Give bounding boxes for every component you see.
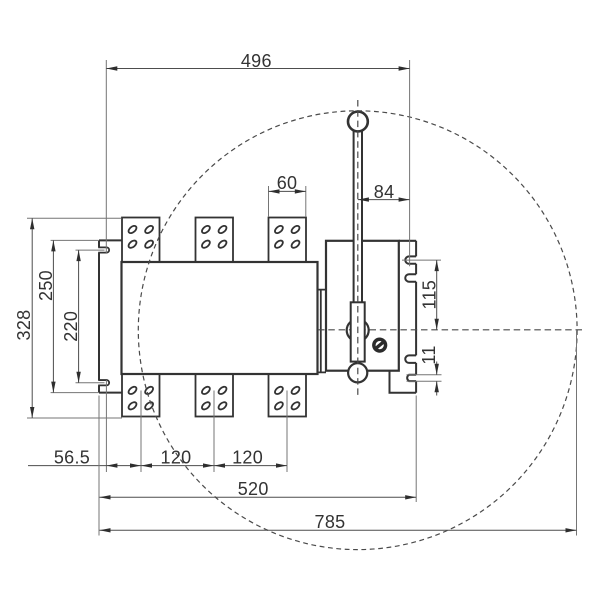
right plate notch 2 [405, 274, 416, 282]
dimension arrows at 214 [203, 463, 214, 467]
svg-text:250: 250 [36, 270, 56, 301]
right mounting plate right edge [415, 241, 417, 393]
right plate notch 1 [405, 256, 416, 263]
dimension 496 extension lines [105, 60, 107, 253]
bottom terminal 3 holes [274, 385, 301, 411]
bottom terminal 1 holes [127, 385, 154, 411]
dimension 56.5/120/120 line [28, 465, 287, 467]
dimension 220 extension lines [76, 249, 105, 251]
right plate lower extension [390, 371, 417, 393]
dimension 328 line [31, 218, 33, 418]
svg-text:60: 60 [277, 173, 298, 193]
right mounting plate top edge [399, 240, 416, 242]
left mounting bracket left edge [98, 240, 100, 392]
dimension 250 arrows [51, 240, 55, 251]
bottom terminal 3 [269, 374, 307, 417]
dimension 785 arrows [100, 528, 111, 532]
dimension arrows at 141 [130, 463, 141, 467]
top terminal 3 [269, 218, 307, 263]
left mounting bracket top edge [99, 239, 122, 241]
dimension 520 arrows [100, 495, 111, 499]
dimension 84 arrows [358, 197, 369, 201]
svg-text:328: 328 [14, 310, 34, 341]
bottom terminal 2 [196, 374, 234, 417]
svg-text:785: 785 [315, 512, 346, 532]
svg-text:220: 220 [61, 311, 81, 342]
dimension 250 extension lines [51, 239, 99, 241]
dimension 11 extension lines [407, 374, 442, 376]
dimension 115 arrows [435, 260, 439, 271]
dimension 520 line [100, 496, 417, 498]
svg-text:84: 84 [374, 182, 395, 202]
dimension 115 line [436, 260, 438, 330]
dimension 496 line [106, 68, 409, 70]
top terminal 2 holes [201, 224, 228, 249]
dimension 60 extension lines [268, 186, 270, 217]
svg-text:520: 520 [238, 479, 269, 499]
bottom terminal 2 holes [201, 385, 228, 411]
dimension 220 arrows [76, 250, 80, 261]
dimension 220 line [78, 250, 80, 383]
dimension 250 line [52, 240, 54, 392]
right plate notch 4 [407, 375, 416, 381]
dimension 520 extension lines [98, 396, 100, 536]
handle shaft [354, 130, 362, 303]
dimension 11 arrows [435, 364, 439, 375]
top terminal 1 holes [127, 224, 154, 249]
dimension 60 line [269, 190, 306, 192]
handle sleeve [351, 302, 365, 361]
handle top ball [348, 112, 368, 132]
top terminal 2 [196, 218, 234, 263]
left mounting bracket bottom edge [99, 392, 122, 394]
main body [122, 262, 318, 374]
dimension 56.5 arrow [106, 463, 117, 467]
svg-text:56.5: 56.5 [54, 447, 90, 467]
svg-text:120: 120 [161, 447, 192, 467]
dimension 11 lines [436, 362, 438, 375]
svg-text:120: 120 [232, 447, 263, 467]
pivot circle [347, 319, 369, 341]
dimension 328 arrows [30, 218, 34, 229]
screw head [372, 338, 387, 353]
top terminal 1 [122, 218, 160, 263]
top terminal 3 holes [274, 224, 301, 249]
bottom terminal 1 [122, 374, 160, 417]
dimension 328 extension lines [27, 217, 122, 219]
dimension 60 arrows [269, 189, 280, 193]
dimension 496 arrows [106, 66, 117, 70]
left bracket bottom keyhole slot [98, 380, 109, 385]
svg-text:496: 496 [241, 51, 272, 71]
junction piece between body and mechanism [318, 290, 327, 373]
dimension 115 extension line [402, 259, 441, 261]
handle swing dashed circle [138, 111, 577, 550]
dimension 785 extension line [576, 330, 578, 536]
dimension arrow at 287 [276, 463, 287, 467]
left bracket top keyhole slot [98, 247, 109, 252]
horizontal centerline [318, 329, 583, 331]
dimension 785 line [100, 529, 577, 531]
dimension 84 line [358, 199, 410, 201]
right plate notch 3 [405, 355, 416, 363]
vertical centerline of handle [357, 100, 359, 396]
svg-text:115: 115 [419, 280, 439, 310]
mechanism box [326, 241, 399, 371]
bottom extension lines [105, 380, 107, 472]
svg-text:11: 11 [419, 345, 439, 364]
handle bottom ball [348, 363, 367, 382]
